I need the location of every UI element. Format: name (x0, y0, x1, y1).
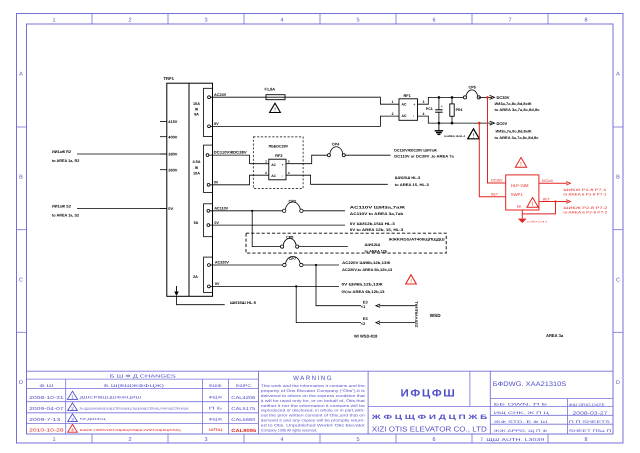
titleblock sheets (569, 420, 611, 424)
wire CP8 out (299, 246, 348, 248)
label 220V vertical (415, 301, 419, 328)
wire input S2 (77, 207, 167, 209)
svg-text:4: 4 (288, 171, 290, 175)
revision table header (110, 374, 176, 379)
label DC0V areas (495, 129, 539, 139)
svg-text:0V: 0V (214, 221, 219, 225)
svg-text:Company 1998.All rights reserv: Company 1998.All rights reserved. (261, 428, 318, 432)
wire RF2 pin4 out (286, 175, 388, 184)
terminal AC110V (207, 206, 229, 212)
terminal W3 0V (207, 221, 219, 227)
svg-text:+: + (282, 163, 284, 167)
connector CP5 (463, 86, 480, 100)
svg-text:DC30V: DC30V (497, 95, 510, 100)
svg-text:to AREA 12b: to AREA 12b (365, 249, 388, 253)
svg-text:SWP1: SWP1 (511, 192, 524, 197)
svg-text:7: 7 (508, 18, 511, 24)
svg-text:to AREA 6 P2-8 P7-2: to AREA 6 P2-8 P7-2 (563, 211, 607, 215)
border row ticks (17, 127, 624, 332)
svg-text:to AREA 15,HL-4: to AREA 15,HL-4 (527, 221, 548, 224)
svg-text:ed to Otis. Unpublished Wo: ed to Otis. Unpublished Work© Otis Eleva… (261, 423, 366, 427)
svg-text:15A: 15A (193, 102, 200, 106)
label P2-8 P7-2 (563, 206, 607, 214)
svg-text:Ж: Ж (194, 107, 199, 111)
wire CP4 out (345, 154, 390, 156)
svg-text:БШPC: БШPC (236, 383, 251, 388)
svg-text:A: A (616, 72, 620, 78)
label input S2 (52, 205, 79, 218)
svg-text:to AREA 6 P1-8 P7-1: to AREA 6 P1-8 P7-1 (563, 192, 606, 196)
svg-text:D: D (19, 380, 23, 386)
red wire DC30V to SWP1 (488, 97, 506, 183)
drawing number (493, 381, 567, 388)
svg-text:CAL8095: CAL8095 (231, 428, 257, 433)
label AC220V out (342, 261, 392, 272)
wire fuse to RF1 pin1 (285, 97, 399, 104)
wire RF1 pin4 to DC0V rail (418, 116, 493, 123)
border column numbers top (52, 18, 587, 24)
wire to E3 pin2 (296, 286, 361, 322)
wire CP7 out (303, 264, 339, 266)
svg-text:ПББDC28V: ПББDC28V (269, 145, 289, 149)
fuse F1.8A (265, 86, 286, 99)
svg-text:ЩШ AUTH. L3039: ЩШ AUTH. L3039 (486, 437, 545, 442)
revision table frame (27, 371, 613, 434)
titleblock sheet no (569, 429, 612, 433)
wire AC110V drop to CP8 (252, 211, 280, 247)
capacitor PC1 (426, 97, 443, 123)
wire W3-0V out (210, 224, 345, 226)
revision row 4 (29, 424, 257, 432)
svg-text:AC: AC (402, 114, 408, 118)
svg-text:ЖЖ APPD. Щ П Ф: ЖЖ APPD. Щ П Ф (494, 429, 548, 433)
svg-text:to AREA 1a, R2: to AREA 1a, R2 (52, 159, 79, 163)
svg-text:+: + (441, 105, 443, 109)
connector CP7 (283, 256, 303, 266)
svg-text:380V: 380V (168, 152, 177, 157)
revision row 3 (29, 414, 256, 422)
svg-text:CAL5175: CAL5175 (231, 406, 256, 411)
label CP8 out (365, 243, 388, 253)
svg-text:9A: 9A (194, 113, 199, 117)
svg-text:SHEET П5a П: SHEET П5a П (569, 429, 612, 433)
svg-text:0V ШИ6b,12b,13Ж: 0V ШИ6b,12b,13Ж (342, 283, 384, 287)
wire AC24V to fuse (210, 96, 266, 98)
svg-text:0V,to AREA 6b,12b,13: 0V,to AREA 6b,12b,13 (342, 290, 385, 294)
svg-text:2: 2 (128, 18, 131, 24)
svg-text:HLP-24M: HLP-24M (511, 183, 529, 188)
resistor PR1 (450, 97, 463, 123)
svg-text:8: 8 (584, 437, 587, 443)
red earth symbol (518, 219, 548, 224)
svg-text:ЖЖKRDS/AT400ЩПЩДШ: ЖЖKRDS/AT400ЩПЩДШ (387, 238, 445, 242)
svg-text:ШИ15Ш HL-3: ШИ15Ш HL-3 (395, 176, 421, 180)
svg-text:2008-03-27: 2008-03-27 (573, 411, 609, 416)
svg-text:CAL5660: CAL5660 (231, 417, 256, 422)
svg-text:CP4: CP4 (332, 143, 340, 147)
power supply SWP1 box (506, 175, 539, 210)
SWP1 pin label DC30V (491, 179, 503, 183)
connector CP4 (327, 143, 345, 157)
wire earth HL-5 (177, 296, 225, 304)
junction dot CP8 tap (251, 210, 253, 212)
RF2 pin numbers (265, 160, 290, 176)
connector CP3 (283, 199, 304, 212)
svg-text:2009-7-13: 2009-7-13 (29, 417, 61, 422)
svg-text:!: ! (473, 133, 475, 140)
svg-text:5#,ДШЖЦ: 5#,ДШЖЦ (80, 417, 107, 421)
revision row 2 (29, 403, 256, 411)
svg-text:6: 6 (432, 437, 435, 443)
label P1-8 P7-1 (563, 188, 606, 196)
titleblock APPD row (494, 429, 548, 433)
svg-text:DC110V or DC28V ,to AREA 7a: DC110V or DC28V ,to AREA 7a (394, 155, 455, 159)
svg-text:ББ OWN. П Б: ББ OWN. П Б (494, 402, 549, 406)
svg-text:5: 5 (356, 18, 359, 24)
connector CP8 (281, 235, 299, 248)
svg-text:A: A (19, 72, 23, 78)
svg-text:AC110V ШИ3a,7aЖ: AC110V ШИ3a,7aЖ (350, 206, 406, 210)
dashed option box DC28V (253, 137, 303, 189)
svg-text:ФЩЖ: ФЩЖ (209, 395, 223, 399)
svg-text:0V to AREA 12b, 15, HL-3: 0V to AREA 12b, 15, HL-3 (350, 228, 404, 232)
RF1 pin numbers (392, 100, 425, 116)
svg-text:neither it nor the informati: neither it nor the information it contai… (261, 404, 365, 408)
SWP1 PE pin (517, 205, 523, 218)
rectifier RF1 (399, 93, 418, 120)
svg-text:3: 3 (423, 100, 425, 104)
svg-text:220VИШИЦ: 220VИШИЦ (415, 301, 419, 328)
svg-text:3: 3 (204, 437, 207, 443)
svg-text:AC: AC (271, 163, 276, 167)
svg-text:ШИ12Ш: ШИ12Ш (365, 243, 381, 247)
ground below PC1 (435, 123, 466, 138)
svg-text:to AREA 3a,7a,8c,8d,8e: to AREA 3a,7a,8c,8d,8e (495, 136, 539, 140)
svg-text:RET: RET (491, 192, 499, 196)
svg-text:1: 1 (265, 160, 267, 164)
svg-text:360V: 360V (168, 167, 177, 172)
svg-text:it will be used only for, or o: it will be used only for, or on behalf o… (261, 399, 365, 403)
company name EN (372, 424, 487, 433)
svg-text:6: 6 (432, 18, 435, 24)
dashed option box KRDS (246, 233, 446, 253)
transformer TRF1 body (167, 83, 213, 296)
transformer winding W2 (4.5A/10A) (192, 145, 212, 192)
svg-text:AC110V: AC110V (214, 206, 228, 210)
svg-text:ИЩ CHK. Ж П Ц: ИЩ CHK. Ж П Ц (494, 411, 550, 415)
revision row 1 (29, 391, 256, 400)
svg-text:10A: 10A (193, 172, 200, 176)
svg-text:AC220V: AC220V (215, 261, 229, 265)
svg-text:П П SHEETS: П П SHEETS (569, 420, 611, 424)
svg-text:RET: RET (543, 197, 551, 201)
titleblock CHK row (494, 411, 550, 415)
svg-text:4: 4 (280, 18, 283, 24)
wire RF2 pin3 to CP4 (286, 155, 327, 164)
transformer core ground arrow (174, 286, 179, 296)
label DC110V/DC28V out (394, 149, 455, 159)
svg-text:CP5: CP5 (469, 86, 476, 90)
border column numbers bottom (52, 437, 587, 443)
svg-text:415V: 415V (168, 119, 177, 124)
svg-text:П Б: П Б (209, 407, 224, 411)
svg-text:2008-10-31: 2008-10-31 (29, 395, 64, 400)
wire W4-0V out (210, 285, 339, 287)
rectifier RF2 (269, 154, 286, 180)
svg-text:3: 3 (288, 160, 290, 164)
company name CN (370, 414, 488, 421)
svg-text:БШ2Ж,П220VИ24VЩШЦИИЩШ,ИИ24VЩШЦ: БШ2Ж,П220VИ24VЩШЦИИЩШ,ИИ24VЩШЦИИИЦ (80, 428, 182, 432)
border row letters (19, 72, 620, 387)
svg-text:B: B (19, 175, 23, 181)
svg-text:Ф Ш: Ф Ш (39, 383, 54, 388)
terminal DC110V/DC28V (206, 151, 247, 157)
label WSD (430, 313, 441, 318)
label W4 0V out (342, 283, 385, 294)
svg-text:to AREA 1a, S2: to AREA 1a, S2 (52, 213, 79, 217)
svg-text:AREA 3a: AREA 3a (546, 333, 564, 338)
terminal W2 0V (207, 180, 219, 186)
svg-text:БФDWG. XAA21310S: БФDWG. XAA21310S (493, 381, 567, 388)
label AREA 3a (546, 333, 564, 338)
warning triangle AC220V (406, 275, 417, 285)
red junction dot DC30V tap (486, 96, 489, 99)
wire CP3 out (303, 210, 345, 212)
terminal W4 0V (208, 282, 220, 288)
svg-text:1: 1 (392, 100, 394, 104)
svg-text:4: 4 (423, 112, 425, 116)
svg-text:8: 8 (584, 18, 587, 24)
svg-text:reproduced or disclosed, in wh: reproduced or disclosed, in whole or in … (261, 409, 366, 413)
svg-text:0V: 0V (214, 180, 219, 184)
warning triangle inside SWP1 (527, 198, 538, 209)
terminal AC24V (208, 93, 227, 99)
svg-text:to AREA 15,HL-4: to AREA 15,HL-4 (444, 135, 466, 138)
junction dots PR1 (451, 96, 454, 124)
svg-text:AC220V ШИ6b,12b,13Ж: AC220V ШИ6b,12b,13Ж (342, 261, 391, 265)
svg-text:+: + (413, 102, 415, 106)
red wire RET to SWP1 (479, 123, 505, 197)
red junction dot DC0V tap (478, 122, 481, 125)
svg-text:ДШCP8ЩЦШФЖЦИШ: ДШCP8ЩЦШФЖЦИШ (80, 395, 142, 399)
arrow DC30V out (479, 95, 510, 100)
svg-text:RF1: RF1 (404, 93, 412, 98)
red wire RET to PE (522, 202, 555, 214)
terminal W1 0V (208, 122, 220, 128)
label input R2 (52, 150, 79, 163)
svg-text:AC110V to AREA 3a,7ab: AC110V to AREA 3a,7ab (350, 212, 405, 216)
label AC110V out (350, 206, 406, 216)
wire input R2 (77, 153, 167, 155)
titleblock auth (480, 437, 545, 443)
svg-text:5: 5 (356, 437, 359, 443)
svg-text:Б Ш(БШЖФФЦЖ): Б Ш(БШЖФФЦЖ) (104, 383, 165, 388)
svg-text:ШИ15Ш HL-5: ШИ15Ш HL-5 (230, 301, 256, 305)
label KRDS option (387, 238, 445, 242)
transformer winding W3 (5A) (194, 204, 213, 237)
svg-text:ИИ1aЖ R2: ИИ1aЖ R2 (52, 150, 71, 154)
svg-text:CP3: CP3 (289, 199, 296, 203)
svg-text:ЖФ STD. Б Ф Ш: ЖФ STD. Б Ф Ш (494, 420, 548, 424)
title block verticals (470, 371, 490, 434)
connector E3 pin2 (361, 316, 415, 326)
wire DC110V to RF2 pin1 (209, 155, 269, 164)
svg-text:CAL4206: CAL4206 (231, 395, 256, 400)
transformer TRF1 divider (188, 83, 190, 296)
svg-text:БШФ: БШФ (209, 383, 222, 388)
svg-text:Ж: Ж (194, 166, 199, 170)
svg-text:ШПЩ: ШПЩ (209, 428, 223, 432)
svg-text:400V: 400V (168, 134, 177, 139)
svg-text:AC: AC (402, 102, 408, 106)
svg-text:C: C (19, 278, 23, 284)
svg-text:DC30V: DC30V (491, 179, 503, 183)
svg-text:CP7: CP7 (289, 257, 296, 261)
wire AC110V to CP3 (210, 210, 283, 212)
svg-text:This work and the information: This work and the information it contain… (261, 384, 365, 388)
svg-text:ФЩЖ: ФЩЖ (209, 417, 223, 421)
label earth HL-5 (230, 301, 256, 305)
border column ticks (92, 14, 548, 444)
svg-text:PC1: PC1 (426, 107, 433, 111)
titleblock date (569, 403, 609, 416)
svg-text:2#,ЦДШЦИИШФЩПБЩDC28VШШИЦ,ПШЦИИ: 2#,ЦДШЦИИШФЩПБЩDC28VШШИЦ,ПШЦИИЩDC28VИЦ,П… (80, 406, 189, 410)
connector E3 pin1 (361, 299, 415, 309)
svg-text:2A: 2A (193, 275, 198, 279)
titleblock OWN row (494, 402, 549, 406)
label W3 0V out (350, 222, 404, 232)
svg-text:AC220V,to AREA 6b,12b,13: AC220V,to AREA 6b,12b,13 (342, 268, 392, 272)
transformer primary taps 415V 400V 380V 360V 0V (160, 119, 178, 211)
wire W2-0V to RF2 pin2 (210, 175, 269, 185)
label W/ WSD-818 (354, 334, 378, 339)
SWP1 RET output (539, 197, 571, 203)
warning triangle near ground (468, 129, 480, 140)
drawing title (401, 388, 457, 400)
transformer winding W1 (15A/9A) (193, 88, 212, 136)
svg-text:2: 2 (392, 112, 394, 116)
transformer winding W4 (2A) (193, 257, 212, 292)
svg-text:0V: 0V (168, 206, 173, 211)
svg-text:C: C (616, 278, 620, 284)
svg-text:WARNING: WARNING (293, 375, 333, 382)
svg-text:B: B (616, 175, 620, 181)
warning triangle above SWP1 (515, 158, 526, 169)
svg-text:PR1: PR1 (456, 108, 463, 112)
svg-text:1: 1 (52, 18, 55, 24)
SWP1 pin label RET left (491, 192, 499, 196)
warning box title (293, 375, 333, 382)
svg-text:XIZI OTIS ELEVATOR CO., LTD: XIZI OTIS ELEVATOR CO., LTD (372, 424, 487, 433)
warning box text (261, 384, 366, 432)
svg-text:Ж Ф Ц Щ Ф И Д Ц П Ж Б: Ж Ф Ц Щ Ф И Д Ц П Ж Б (370, 414, 488, 421)
svg-text:2010-10-28: 2010-10-28 (29, 428, 64, 433)
svg-text:3: 3 (204, 18, 207, 24)
svg-text:4.5A: 4.5A (192, 160, 200, 164)
terminal AC220V (208, 261, 230, 267)
svg-text:D: D (616, 380, 620, 386)
svg-text:RF2: RF2 (275, 154, 282, 158)
SWP1 titles (511, 183, 529, 197)
svg-text:5A: 5A (194, 221, 199, 225)
svg-text:4: 4 (280, 437, 283, 443)
svg-text:WSD: WSD (430, 313, 441, 318)
svg-text:0V: 0V (214, 122, 219, 126)
wire AC220V to CP7 (210, 264, 282, 266)
svg-text:ИФЦФШ: ИФЦФШ (401, 388, 457, 400)
svg-text:ИИ3a,7a,8c,8d,8eЖ: ИИ3a,7a,8c,8d,8eЖ (496, 129, 533, 133)
wire W1-0V to RF1 pin2 (210, 116, 399, 126)
svg-text:2009-04-07: 2009-04-07 (29, 406, 64, 411)
svg-text:DC110VЖDC28V: DC110VЖDC28V (214, 151, 248, 155)
svg-text:demand it and any copies will: demand it and any copies will be promptl… (261, 419, 366, 423)
svg-text:DC0V: DC0V (497, 121, 508, 126)
arrow DC0V out (490, 121, 508, 126)
svg-text:property of Otis Elevator Com: property of Otis Elevator Company (“Otis… (261, 389, 365, 393)
titleblock STD row (494, 420, 548, 424)
transformer TRF1 label (164, 76, 175, 81)
svg-text:AC24V: AC24V (214, 93, 227, 97)
label HL-3 out (395, 176, 429, 187)
svg-text:ИИ1aЖ S2: ИИ1aЖ S2 (52, 205, 71, 209)
svg-text:7: 7 (480, 437, 483, 443)
svg-text:DC110VЖDC28V ШИ7aЖ: DC110VЖDC28V ШИ7aЖ (394, 149, 437, 153)
svg-text:ФШ ORIG.DATE: ФШ ORIG.DATE (569, 403, 606, 407)
svg-text:0V: 0V (215, 282, 220, 286)
svg-text:F1,8A: F1,8A (265, 86, 276, 91)
svg-text:Б Ш Ф Д CHANGES: Б Ш Ф Д CHANGES (110, 374, 176, 379)
wire RF1 pin3 to DC30V rail (418, 97, 464, 104)
svg-text:2: 2 (265, 171, 267, 175)
warning triangle below fuse (270, 103, 281, 113)
svg-text:1: 1 (71, 395, 74, 401)
svg-text:0V ШИ12b,15Ш HL-3: 0V ШИ12b,15Ш HL-3 (350, 222, 395, 226)
svg-text:TRF1: TRF1 (164, 76, 175, 81)
svg-text:1: 1 (52, 437, 55, 443)
svg-text:ИИ3a,7a,8c,8d,8eЖ: ИИ3a,7a,8c,8d,8eЖ (495, 102, 533, 106)
svg-text:W/ WSD-818: W/ WSD-818 (354, 334, 378, 339)
svg-text:delivered to others on the exp: delivered to others on the express condi… (261, 394, 365, 398)
svg-text:2: 2 (128, 437, 131, 443)
title block rows (368, 399, 613, 434)
svg-text:AC: AC (271, 174, 276, 178)
label only-for-DC28V (269, 145, 289, 149)
svg-text:to AREA 15, HL-3: to AREA 15, HL-3 (395, 183, 429, 187)
warning box frame (367, 371, 369, 434)
revision column headers (39, 383, 251, 388)
svg-text:DC24V: DC24V (542, 179, 554, 183)
svg-text:to AREA 3a,7a,8c,8d,8e: to AREA 3a,7a,8c,8d,8e (495, 108, 540, 112)
label DC30V areas (495, 102, 540, 112)
svg-text:CP8: CP8 (286, 235, 293, 239)
SWP1 DC24V output (539, 179, 571, 185)
svg-text:PE: PE (517, 205, 522, 209)
junction dots PC1 (438, 96, 441, 124)
svg-text:out the prior written consent: out the prior written consent of Otis,an… (261, 414, 365, 418)
wire to E3 pin1 (316, 265, 361, 306)
